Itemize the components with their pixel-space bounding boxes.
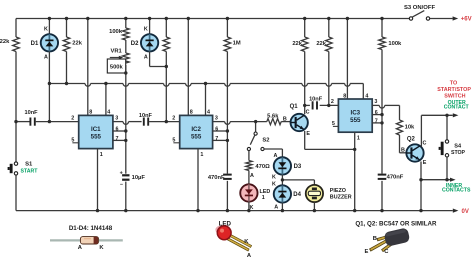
svg-text:PIEZO: PIEZO: [330, 188, 346, 194]
svg-text:TO: TO: [450, 81, 457, 87]
svg-text:S3 ON/OFF: S3 ON/OFF: [404, 5, 435, 11]
svg-text:6: 6: [116, 127, 119, 133]
svg-text:470Ω: 470Ω: [255, 164, 270, 170]
svg-text:3: 3: [374, 99, 377, 105]
svg-text:10nF: 10nF: [139, 113, 153, 119]
svg-text:A: A: [273, 153, 277, 159]
svg-text:10k: 10k: [405, 125, 415, 131]
svg-text:555: 555: [191, 134, 202, 141]
svg-text:1: 1: [100, 152, 103, 158]
svg-text:8: 8: [89, 110, 92, 116]
svg-text:D2: D2: [131, 41, 139, 47]
svg-text:A: A: [250, 173, 254, 179]
svg-text:K: K: [272, 182, 276, 188]
svg-text:+: +: [120, 170, 123, 176]
svg-text:10nF: 10nF: [24, 110, 38, 116]
svg-text:22k: 22k: [292, 41, 302, 47]
svg-text:1M: 1M: [233, 41, 241, 47]
svg-text:8: 8: [190, 110, 193, 116]
svg-text:A: A: [274, 204, 278, 210]
svg-text:3: 3: [115, 115, 118, 121]
svg-text:1: 1: [200, 152, 203, 158]
svg-text:K: K: [272, 174, 276, 180]
svg-text:START/STOP: START/STOP: [437, 87, 471, 93]
svg-text:5.6k: 5.6k: [267, 113, 279, 119]
svg-text:BUZZER: BUZZER: [330, 195, 352, 201]
svg-text:Q2: Q2: [407, 137, 416, 143]
svg-text:A: A: [44, 54, 48, 60]
svg-text:7: 7: [116, 136, 119, 142]
svg-text:2: 2: [172, 115, 175, 121]
svg-text:E: E: [306, 131, 310, 137]
svg-text:−: −: [120, 182, 123, 188]
svg-text:CONTACT: CONTACT: [444, 105, 470, 111]
svg-text:10µF: 10µF: [132, 175, 146, 181]
svg-text:6: 6: [215, 127, 218, 133]
svg-text:START: START: [21, 169, 39, 175]
svg-text:2: 2: [71, 115, 74, 121]
svg-text:B: B: [401, 147, 405, 153]
svg-text:E: E: [364, 249, 368, 255]
svg-text:D4: D4: [293, 192, 301, 198]
svg-text:4: 4: [207, 110, 210, 116]
svg-text:4: 4: [365, 93, 368, 99]
svg-text:D1-D4: 1N4148: D1-D4: 1N4148: [69, 225, 113, 232]
svg-text:S4: S4: [454, 144, 462, 150]
svg-text:B: B: [373, 236, 377, 242]
svg-text:S1: S1: [25, 161, 33, 167]
svg-text:7: 7: [215, 136, 218, 142]
svg-text:100k: 100k: [109, 29, 123, 35]
svg-text:C: C: [306, 110, 310, 116]
svg-text:A: A: [144, 54, 148, 60]
svg-text:22k: 22k: [316, 41, 326, 47]
svg-text:+6V: +6V: [461, 17, 472, 23]
svg-text:Q1: Q1: [290, 104, 299, 110]
svg-text:22k: 22k: [0, 39, 10, 45]
svg-text:22k: 22k: [72, 41, 82, 47]
svg-text:500k: 500k: [110, 65, 124, 71]
svg-text:STOP: STOP: [451, 150, 466, 156]
svg-text:SWITCH: SWITCH: [444, 94, 465, 100]
svg-text:470nF: 470nF: [387, 174, 404, 180]
svg-text:0V: 0V: [462, 209, 469, 215]
svg-text:4: 4: [107, 110, 110, 116]
svg-text:CONTACTS: CONTACTS: [442, 188, 471, 194]
svg-text:100k: 100k: [388, 41, 402, 47]
svg-text:6: 6: [375, 110, 378, 116]
svg-text:2: 2: [331, 99, 334, 105]
svg-text:3: 3: [215, 115, 218, 121]
svg-text:1: 1: [357, 135, 360, 141]
svg-text:VR1: VR1: [110, 49, 122, 55]
svg-text:K: K: [44, 27, 48, 33]
svg-text:IC1: IC1: [91, 126, 101, 133]
svg-text:E: E: [423, 160, 427, 166]
svg-text:S2: S2: [262, 138, 269, 144]
svg-text:5: 5: [71, 137, 74, 143]
svg-text:IC2: IC2: [191, 126, 201, 133]
svg-text:555: 555: [350, 117, 361, 124]
svg-text:D1: D1: [31, 41, 39, 47]
svg-text:IC3: IC3: [350, 109, 360, 116]
svg-text:10nF: 10nF: [309, 96, 323, 102]
svg-text:555: 555: [91, 134, 102, 141]
svg-text:470nF: 470nF: [208, 175, 225, 181]
svg-text:7: 7: [375, 118, 378, 124]
svg-text:5: 5: [332, 121, 335, 127]
svg-text:C: C: [422, 140, 426, 146]
svg-text:D3: D3: [294, 164, 302, 170]
svg-text:1: 1: [262, 195, 265, 201]
svg-text:Q1, Q2: BC547 OR SIMILAR: Q1, Q2: BC547 OR SIMILAR: [355, 221, 437, 228]
svg-text:B: B: [283, 117, 287, 123]
svg-text:K: K: [144, 27, 148, 33]
svg-text:5: 5: [172, 137, 175, 143]
svg-text:8: 8: [343, 93, 346, 99]
